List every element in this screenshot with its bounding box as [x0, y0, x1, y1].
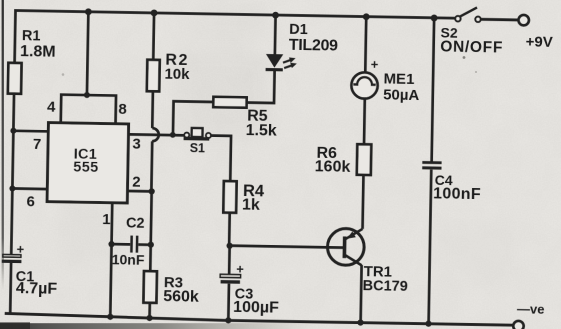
- capacitor C2 left plate: [130, 236, 133, 253]
- capacitor C4 bottom plate: [422, 166, 441, 169]
- page bottom smear bar: [0, 323, 320, 329]
- wire: ME1 bottom to R6 top: [363, 99, 366, 145]
- junction dot pin7/left rail: [10, 128, 16, 134]
- wire: left rail from R1 bottom to C1 top plate: [11, 94, 14, 255]
- wire: C2 right plate to R3 node: [138, 243, 150, 246]
- junction dot C3 / bottom rail: [225, 317, 231, 323]
- wire: pin 2 to R2/R3 node: [127, 190, 152, 193]
- svg-text:BC179: BC179: [362, 278, 407, 295]
- svg-text:+: +: [371, 57, 379, 72]
- svg-text:R1: R1: [22, 28, 41, 44]
- LED light arrow 1 head: [289, 57, 296, 63]
- svg-text:50µA: 50µA: [383, 86, 420, 104]
- wire: D1 anode riser from top rail: [274, 15, 277, 55]
- wire: TR1 collector down to bottom rail: [361, 265, 362, 323]
- TR1 collector diagonal: [345, 255, 362, 265]
- switch S1 left terminal: [184, 133, 189, 138]
- svg-text:+9V: +9V: [525, 33, 552, 50]
- junction dot C2 right plate node: [148, 242, 154, 248]
- ghost show-through patch top middle: [195, 4, 265, 42]
- svg-text:1: 1: [102, 211, 111, 228]
- resistor R2 body: [147, 60, 160, 92]
- svg-text:S1: S1: [190, 141, 206, 155]
- junction dot pin1 line / bottom rail: [107, 314, 113, 320]
- wire: R2 branch from top rail down to hop: [152, 13, 156, 60]
- ink speck near R1 label: [62, 73, 65, 76]
- junction dot C4 / bottom rail: [425, 321, 431, 327]
- svg-text:+: +: [236, 261, 244, 276]
- junction dot TR1 / bottom rail: [357, 319, 363, 325]
- junction dot top rail / D1: [272, 12, 279, 19]
- svg-text:D1: D1: [289, 22, 308, 38]
- page bottom-left dark block: [0, 322, 30, 329]
- IC1 555 body: [47, 123, 129, 203]
- svg-text:6: 6: [26, 193, 35, 210]
- switch S2 pole terminal: [455, 16, 460, 21]
- switch S2 throw terminal: [475, 17, 480, 22]
- wire: pin 3 output to S1: [128, 133, 184, 137]
- ghost show-through patch upper middle: [175, 50, 270, 140]
- wire: R2 bottom down to crossover hop: [151, 91, 154, 128]
- svg-text:555: 555: [73, 159, 99, 175]
- junction dot riser / pins4-8 bridge: [84, 92, 90, 98]
- ink speck top right: [463, 56, 466, 59]
- ME1 internal gauge arc: [353, 77, 376, 85]
- svg-text:ON/OFF: ON/OFF: [440, 38, 503, 56]
- meter ME1 body circle: [351, 72, 378, 99]
- switch S1 contact bar: [184, 137, 210, 141]
- wire: C4 branch from top rail: [432, 18, 435, 161]
- junction dot pin6/left rail: [9, 185, 15, 191]
- wire: R4 bottom to base node: [228, 213, 231, 246]
- resistor R1 body: [8, 63, 22, 94]
- svg-text:ME1: ME1: [383, 70, 414, 88]
- wire: R6 bottom to TR1 emitter: [361, 175, 365, 229]
- ink speck right: [475, 71, 477, 73]
- resistor R4 body: [223, 181, 236, 213]
- capacitor C2 right plate: [136, 236, 139, 253]
- resistor R5 body (horizontal): [213, 97, 246, 108]
- svg-text:4.7µF: 4.7µF: [16, 280, 58, 298]
- TR1 emitter diagonal (from R6 line into base bar): [346, 229, 363, 240]
- wire: C2 left plate to pin1 riser: [112, 243, 131, 246]
- junction dot top rail / C4 and S2: [431, 15, 438, 22]
- capacitor C1 top (+) plate, hollow: [3, 254, 21, 257]
- svg-text:1k: 1k: [242, 197, 260, 214]
- svg-text:10k: 10k: [164, 65, 190, 82]
- junction dot pin1 line / C2 left: [108, 241, 114, 247]
- junction dot top rail / R2: [151, 9, 158, 16]
- TR1 base bar: [343, 236, 347, 258]
- ghost show-through patch center left: [60, 205, 120, 265]
- wire: R3 bottom to bottom rail: [148, 303, 151, 319]
- wire: C3 bottom to bottom rail: [227, 284, 230, 321]
- wire: pin 1 riser down to bottom rail: [110, 203, 112, 317]
- wire: C4 bottom plate to bottom rail: [429, 169, 432, 323]
- svg-text:TIL209: TIL209: [289, 37, 339, 55]
- svg-text:—ve: —ve: [517, 301, 545, 316]
- wire: base node to TR1 base: [230, 246, 344, 248]
- LED D1 triangle (anode): [266, 54, 284, 68]
- transistor TR1 circle: [327, 228, 364, 265]
- wire: pin2 node down to C2 right / R3 top node: [150, 191, 151, 271]
- wire: hop down to pin2 node: [150, 141, 154, 191]
- svg-text:4: 4: [47, 98, 56, 115]
- wire: D1 cathode down and left to R5 right end: [247, 71, 275, 103]
- switch S2 lever (open): [459, 7, 477, 17]
- svg-text:1.5k: 1.5k: [245, 122, 277, 140]
- resistor R3 body: [143, 271, 157, 303]
- ghost show-through patch right of C4: [445, 215, 515, 290]
- wire: base node down to C3: [228, 246, 231, 274]
- junction dot top rail / ME1: [363, 13, 370, 20]
- wire: R5 left end to pin3/S1 wire: [173, 101, 213, 135]
- svg-text:100µF: 100µF: [233, 299, 279, 317]
- svg-text:7: 7: [33, 136, 42, 153]
- wire: ME1 riser from top rail: [364, 17, 368, 73]
- svg-text:1.8M: 1.8M: [20, 43, 56, 61]
- switch S1 right terminal: [206, 133, 211, 138]
- wire hop: R2 line jumps over pin3 wire (no connection): [152, 128, 159, 141]
- svg-text:560k: 560k: [163, 288, 199, 306]
- svg-text:3: 3: [132, 136, 141, 153]
- capacitor C4 top plate: [422, 161, 441, 164]
- junction dot R4 / C3 / TR1 base node: [226, 243, 232, 249]
- svg-text:+: +: [17, 242, 25, 257]
- LED light arrow 2 head: [290, 63, 297, 69]
- LED light arrow 1 shaft: [283, 60, 291, 63]
- capacitor C3 bottom plate, solid: [221, 280, 240, 284]
- svg-text:160k: 160k: [315, 158, 351, 176]
- junction dot top rail / pins4-8 riser: [85, 8, 92, 15]
- +9V supply terminal circle: [518, 15, 529, 26]
- wire: pin 7 to left rail: [13, 129, 48, 132]
- resistor R6 body: [357, 144, 372, 175]
- junction dot pin2 node: [149, 188, 155, 194]
- svg-text:8: 8: [118, 101, 127, 118]
- svg-text:2: 2: [132, 174, 141, 191]
- LED D1 cathode bar: [266, 68, 283, 71]
- capacitor C3 top (+) plate, hollow: [220, 274, 240, 278]
- wire: S2 to +9V terminal: [481, 18, 519, 21]
- TR1 emitter arrow (PNP, pointing to base): [347, 231, 356, 239]
- wire: +9V top rail and left rail upper segment down to R1: [15, 10, 456, 70]
- svg-text:C2: C2: [126, 215, 145, 231]
- wire: 0V bottom rail to -ve terminal: [5, 313, 514, 325]
- capacitor C1 bottom plate, solid: [2, 260, 22, 264]
- wire: S1 right terminal to R4 top: [210, 136, 231, 182]
- wire: riser from top rail to pins 4/8 bridge: [87, 12, 88, 95]
- svg-text:100nF: 100nF: [433, 186, 481, 204]
- wire: pin 6 to left rail: [12, 187, 47, 190]
- page left border line: [2, 0, 4, 290]
- wire: pins 4 and 8 bridge above IC1: [61, 95, 116, 124]
- junction dot R3 / bottom rail: [146, 315, 152, 321]
- wire: left rail from C1 bottom plate to 0V bottom rail: [9, 263, 13, 315]
- svg-text:10nF: 10nF: [112, 251, 145, 268]
- junction dot R5 branch on pin3 wire: [170, 132, 176, 138]
- ink speck left of S1: [119, 139, 123, 143]
- LED light arrow 2 shaft: [284, 65, 292, 68]
- switch S1 button: [192, 128, 203, 137]
- -ve supply terminal circle: [513, 321, 524, 329]
